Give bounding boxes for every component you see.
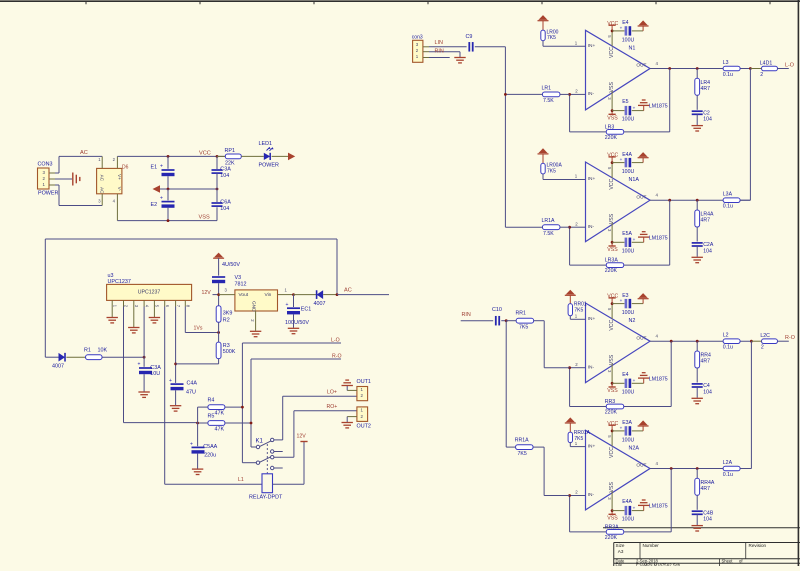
svg-text:LR4A: LR4A xyxy=(701,212,715,218)
svg-text:E3: E3 xyxy=(622,293,628,299)
svg-text:VCC: VCC xyxy=(609,47,615,58)
ground at pin3 xyxy=(128,307,139,333)
wire pin7 to R3 xyxy=(176,363,219,365)
svg-text:L3A: L3A xyxy=(723,192,733,198)
svg-text:+: + xyxy=(620,426,623,431)
N2A pin1 xyxy=(570,441,585,447)
svg-text:47U: 47U xyxy=(186,390,196,396)
diode D5 4007 xyxy=(294,290,338,307)
resistor LR3A 220K feedback xyxy=(570,200,670,274)
svg-text:VSS: VSS xyxy=(609,82,615,93)
N2 pin1 xyxy=(570,314,585,320)
N1 pin2 xyxy=(570,89,586,95)
N2A pin5 VCC xyxy=(607,421,619,446)
svg-text:E4: E4 xyxy=(622,372,628,378)
svg-text:E3A: E3A xyxy=(622,420,632,426)
capacitor 4U/50V xyxy=(212,262,240,295)
junction xyxy=(668,67,671,70)
junction xyxy=(143,356,146,359)
svg-text:R5: R5 xyxy=(208,414,215,420)
svg-text:100U/50V: 100U/50V xyxy=(285,320,309,326)
junction xyxy=(696,340,699,343)
svg-text:RR3A: RR3A xyxy=(605,524,619,530)
capacitor E5A 100U xyxy=(612,231,644,254)
svg-text:VCC: VCC xyxy=(609,178,615,189)
capacitor E3 100U xyxy=(612,293,643,316)
svg-text:R4: R4 xyxy=(208,398,215,404)
svg-text:220K: 220K xyxy=(605,268,618,274)
svg-text:LM1875: LM1875 xyxy=(649,104,668,110)
N2 pin5 VCC xyxy=(607,294,619,319)
junction xyxy=(670,467,673,470)
svg-text:7K5: 7K5 xyxy=(518,451,527,457)
N1 pin4 output xyxy=(650,61,750,69)
net label 12V xyxy=(202,290,219,296)
svg-text:R1: R1 xyxy=(84,348,91,354)
svg-text:IN+: IN+ xyxy=(588,316,596,322)
junction xyxy=(167,155,170,158)
svg-text:Number: Number xyxy=(643,543,660,548)
svg-text:LM1875: LM1875 xyxy=(649,235,668,241)
ground arrow xyxy=(638,293,649,304)
svg-text:L-O: L-O xyxy=(785,63,794,69)
svg-text:VCC: VCC xyxy=(607,153,618,159)
wire VSS rail xyxy=(117,207,217,220)
svg-text:RO+: RO+ xyxy=(327,404,338,410)
wire AC sense loop xyxy=(45,239,337,357)
svg-text:7.5K: 7.5K xyxy=(543,231,554,237)
power port arrow right xyxy=(288,153,295,161)
LED1 POWER xyxy=(259,141,289,169)
resistor R3 500K xyxy=(216,333,236,364)
resistor RR01A 7K5 xyxy=(565,417,591,446)
wire relay NO2 to OUT2 xyxy=(274,411,357,457)
svg-text:+: + xyxy=(190,441,193,447)
capacitor E3A 100U xyxy=(612,420,643,443)
junction xyxy=(505,319,508,322)
svg-text:OUT1: OUT1 xyxy=(357,379,371,385)
svg-text:+: + xyxy=(160,164,163,170)
capacitor E2 xyxy=(151,189,175,221)
svg-text:47K: 47K xyxy=(215,427,225,433)
svg-text:VCC: VCC xyxy=(607,294,618,300)
capacitor E4A 100U xyxy=(612,152,643,175)
net label L-O xyxy=(331,337,340,343)
svg-text:104: 104 xyxy=(220,173,229,179)
net label RIN 2 xyxy=(462,312,471,318)
net label VCC xyxy=(199,150,211,156)
svg-text:RR1: RR1 xyxy=(516,311,526,317)
svg-text:VSS: VSS xyxy=(607,247,618,253)
net label VSS xyxy=(199,214,210,220)
resistor LR1 7.5K xyxy=(505,85,569,104)
resistor RR1A 7K5 xyxy=(506,437,569,495)
svg-text:RR4A: RR4A xyxy=(701,480,715,486)
svg-text:VSS: VSS xyxy=(607,515,618,521)
wire CON3 pin3 to bridge AC xyxy=(55,156,102,173)
net label RO+ xyxy=(327,404,338,410)
svg-text:OUT: OUT xyxy=(636,463,646,469)
connector OUT2 xyxy=(342,407,371,430)
junction xyxy=(336,293,339,296)
svg-text:3K9: 3K9 xyxy=(223,311,233,317)
N1 pin1 xyxy=(543,41,586,47)
svg-text:VSS: VSS xyxy=(607,115,618,121)
svg-text:LR4: LR4 xyxy=(701,80,711,86)
svg-text:IN-: IN- xyxy=(588,224,595,230)
net label L-O out xyxy=(785,63,794,69)
inverted ladder ground xyxy=(638,500,649,511)
resistor RR1 7K5 xyxy=(506,311,569,368)
capacitor E5 100U xyxy=(612,99,644,122)
inductor L2A xyxy=(723,460,740,478)
sheet top border xyxy=(0,1,800,4)
svg-text:C10: C10 xyxy=(492,307,502,313)
svg-text:Vout: Vout xyxy=(239,292,249,298)
capacitor E4 100U xyxy=(612,372,644,395)
svg-text:47K: 47K xyxy=(215,411,225,417)
UPC1237 pin 3 xyxy=(134,300,139,307)
svg-text:OUT: OUT xyxy=(636,194,646,200)
junction xyxy=(568,494,571,497)
UPC1237 pin 8 xyxy=(185,300,190,307)
capacitor E4 100U xyxy=(612,20,643,43)
svg-text:AC: AC xyxy=(80,150,88,156)
svg-text:IN-: IN- xyxy=(588,364,595,370)
svg-text:C2A: C2A xyxy=(703,242,714,248)
svg-text:RR4: RR4 xyxy=(701,353,711,359)
svg-text:E5: E5 xyxy=(622,99,628,105)
svg-text:LR1: LR1 xyxy=(542,85,552,91)
svg-text:OUT: OUT xyxy=(636,63,646,69)
svg-text:LR3A: LR3A xyxy=(605,258,619,264)
svg-text:220u: 220u xyxy=(204,453,216,459)
svg-text:VSS: VSS xyxy=(609,482,615,493)
svg-text:220K: 220K xyxy=(605,135,618,141)
junction xyxy=(504,93,507,96)
svg-text:100U: 100U xyxy=(622,37,635,43)
UPC1237 pin 4 xyxy=(144,300,149,307)
svg-text:OUT: OUT xyxy=(636,335,646,341)
junction xyxy=(668,199,671,202)
wire bridge R xyxy=(750,341,752,468)
inverted ladder ground xyxy=(638,373,649,384)
svg-text:VSS: VSS xyxy=(609,213,615,224)
svg-text:C3A: C3A xyxy=(150,365,161,371)
svg-text:0.1u: 0.1u xyxy=(723,204,733,210)
capacitor C9 xyxy=(466,34,473,52)
svg-text:+: + xyxy=(620,298,623,303)
op-amp N1 xyxy=(586,30,651,110)
svg-text:12V: 12V xyxy=(202,290,212,296)
wire bridge L xyxy=(749,69,751,201)
inverted ladder ground xyxy=(638,232,649,243)
junction xyxy=(216,155,219,158)
op-amp N1A xyxy=(586,162,651,242)
svg-text:IN-: IN- xyxy=(588,492,595,498)
resistor R4 47K xyxy=(198,398,243,417)
wire relay NO1 to OUT1 xyxy=(274,396,357,440)
svg-text:N2A: N2A xyxy=(629,446,640,452)
svg-text:POWER: POWER xyxy=(38,191,58,197)
svg-text:4R7: 4R7 xyxy=(701,218,711,224)
svg-text:C4A: C4A xyxy=(187,381,198,387)
resistor LR00A 7K5 xyxy=(538,148,563,179)
label LM1875 xyxy=(649,104,668,110)
resistor LR4A 4R7 xyxy=(695,200,714,241)
capacitor C10 xyxy=(492,307,506,325)
wire R-O sense xyxy=(251,359,341,447)
wire C9 to bus xyxy=(475,47,506,227)
svg-text:L2A: L2A xyxy=(723,460,733,466)
junction xyxy=(611,430,614,433)
svg-text:E4: E4 xyxy=(622,20,628,26)
junction xyxy=(241,406,244,409)
wire pin2 net xyxy=(124,307,198,423)
capacitor C3A xyxy=(212,156,232,189)
junction xyxy=(696,199,699,202)
capacitor C4A xyxy=(169,307,197,412)
ground arrow xyxy=(638,152,649,163)
svg-text:V3: V3 xyxy=(235,275,242,281)
UPC1237 pin 5 xyxy=(154,300,159,307)
relay K1 coil xyxy=(249,474,283,501)
UPC1237 pin 2 xyxy=(124,300,129,307)
N1A pin3 VSS xyxy=(607,223,618,253)
mid-rail ground arrow xyxy=(153,185,218,193)
svg-text:100U: 100U xyxy=(622,248,635,254)
net label RIN xyxy=(435,48,444,54)
svg-text:V-: V- xyxy=(117,187,122,192)
svg-text:LIN: LIN xyxy=(435,40,443,46)
N1 pin3 VSS xyxy=(607,91,618,121)
svg-text:104: 104 xyxy=(703,117,712,123)
svg-text:VSS: VSS xyxy=(199,214,210,220)
svg-text:LED1: LED1 xyxy=(259,141,273,147)
junction xyxy=(568,226,571,229)
svg-text:N2: N2 xyxy=(629,318,636,324)
svg-text:L4D1: L4D1 xyxy=(760,60,773,66)
svg-text:+: + xyxy=(169,378,172,384)
svg-text:7K5: 7K5 xyxy=(547,35,556,41)
net label LO+ xyxy=(327,390,337,396)
ground arrow xyxy=(638,20,649,31)
svg-text:7K5: 7K5 xyxy=(574,436,583,442)
N1A pin5 VCC xyxy=(607,153,619,178)
svg-text:12V: 12V xyxy=(297,433,307,439)
N1A pin1 xyxy=(543,174,586,180)
svg-text:10U: 10U xyxy=(150,371,160,377)
svg-text:500K: 500K xyxy=(223,349,236,355)
resistor RR3A 220K feedback xyxy=(570,469,672,542)
svg-text:4R7: 4R7 xyxy=(701,359,711,365)
svg-text:E2: E2 xyxy=(151,202,158,208)
wire L3A to bridge xyxy=(740,199,750,201)
junction xyxy=(292,293,295,296)
net label LIN xyxy=(435,40,443,46)
svg-text:V+: V+ xyxy=(117,174,122,180)
svg-text:RIN: RIN xyxy=(435,48,444,54)
svg-text:C4B: C4B xyxy=(703,510,714,516)
svg-text:2: 2 xyxy=(761,345,764,351)
resistor RR4A 4R7 xyxy=(695,469,715,510)
capacitor C2A 104 xyxy=(692,242,714,263)
net label AC xyxy=(344,288,352,294)
svg-text:UPC1237: UPC1237 xyxy=(138,289,161,295)
resistor LR4 4R7 xyxy=(695,69,710,110)
svg-text:Vin: Vin xyxy=(265,292,272,298)
svg-text:IN-: IN- xyxy=(588,91,595,97)
power arrow + xyxy=(213,253,224,276)
svg-text:RELAY-DPDT: RELAY-DPDT xyxy=(249,494,283,500)
svg-text:AC: AC xyxy=(99,175,104,182)
capacitor E4A 100U xyxy=(612,499,644,522)
inductor L2C xyxy=(751,333,788,351)
resistor RP1 xyxy=(217,148,264,167)
relay K1 contacts xyxy=(242,438,282,473)
junction xyxy=(568,93,571,96)
earth ground at CON3 pin2 xyxy=(55,173,80,186)
svg-text:4R7: 4R7 xyxy=(701,486,711,492)
svg-text:LR3: LR3 xyxy=(605,124,615,130)
wire pin8 to 1Vs node xyxy=(185,307,218,333)
svg-text:C6A: C6A xyxy=(220,199,231,205)
junction xyxy=(196,422,199,425)
capacitor EC1 100U/50V xyxy=(285,295,311,334)
N1A pin2 xyxy=(570,221,586,227)
junction xyxy=(696,67,699,70)
svg-text:AC: AC xyxy=(99,187,104,194)
svg-text:220K: 220K xyxy=(605,535,618,541)
svg-text:CON3: CON3 xyxy=(38,162,53,168)
svg-text:R2: R2 xyxy=(223,318,230,324)
connector OUT1 xyxy=(342,379,371,401)
svg-text:RR1A: RR1A xyxy=(515,437,529,443)
svg-text:+: + xyxy=(633,105,636,110)
resistor R5 47K xyxy=(198,414,251,433)
svg-text:IN+: IN+ xyxy=(588,176,596,182)
svg-text:100U: 100U xyxy=(622,389,635,395)
svg-text:E4A: E4A xyxy=(622,152,632,158)
svg-text:L1: L1 xyxy=(238,477,244,483)
junction xyxy=(750,340,753,343)
svg-text:10K: 10K xyxy=(98,348,108,354)
svg-text:AC: AC xyxy=(344,288,352,294)
junction xyxy=(568,366,571,369)
junction xyxy=(611,161,614,164)
junction xyxy=(670,340,673,343)
svg-text:VCC: VCC xyxy=(609,319,615,330)
svg-text:100U: 100U xyxy=(622,310,635,316)
capacitor E1 xyxy=(151,156,175,189)
svg-text:D6: D6 xyxy=(122,165,129,171)
svg-text:22K: 22K xyxy=(225,161,235,167)
junction xyxy=(611,382,614,385)
svg-text:C9: C9 xyxy=(466,34,473,40)
junction xyxy=(611,241,614,244)
wire LIN xyxy=(429,46,467,48)
wire L-O sense xyxy=(242,343,341,463)
svg-text:Sheet: Sheet xyxy=(722,559,734,564)
svg-text:Size: Size xyxy=(616,543,625,548)
resistor R1 10K xyxy=(84,348,144,360)
IC U3 UPC1237 xyxy=(107,273,192,300)
svg-text:RP1: RP1 xyxy=(225,148,236,154)
capacitor C2 104 xyxy=(692,110,712,131)
svg-text:LM1875: LM1875 xyxy=(649,504,668,510)
inverted ladder ground xyxy=(638,100,649,111)
svg-text:+: + xyxy=(633,378,636,383)
inductor L2 xyxy=(723,333,740,351)
svg-text:GND: GND xyxy=(250,301,256,312)
label LM1875 xyxy=(649,376,668,382)
diode D7 4007 xyxy=(45,353,85,370)
wire R4-R5 tie xyxy=(197,407,199,446)
svg-text:EC1: EC1 xyxy=(301,306,312,312)
junction xyxy=(611,302,614,305)
capacitor C4 104 xyxy=(692,383,712,404)
svg-text:100U: 100U xyxy=(622,169,635,175)
svg-text:104: 104 xyxy=(703,517,712,523)
svg-text:+: + xyxy=(620,26,623,31)
svg-text:L-O: L-O xyxy=(331,337,340,343)
svg-text:100U: 100U xyxy=(622,437,635,443)
svg-text:VCC: VCC xyxy=(199,150,211,156)
N2 pin4 output xyxy=(650,334,751,342)
junction xyxy=(696,467,699,470)
op-amp N2A xyxy=(586,430,651,510)
inductor L3 xyxy=(723,60,740,78)
svg-text:C2: C2 xyxy=(703,110,710,116)
svg-text:con3: con3 xyxy=(412,35,423,41)
ground at pin5 xyxy=(149,307,160,323)
N2A pin4 output xyxy=(650,461,751,469)
wire coil right to 12V xyxy=(273,442,305,485)
svg-text:220K: 220K xyxy=(605,410,618,416)
N2A pin3 VSS xyxy=(607,491,618,521)
capacitor C5AA 220u xyxy=(190,441,218,474)
svg-text:7K5: 7K5 xyxy=(519,325,528,331)
svg-text:104: 104 xyxy=(703,389,712,395)
junction xyxy=(611,509,614,512)
wire pin6 to relay coil xyxy=(165,307,262,485)
svg-text:C4: C4 xyxy=(703,383,710,389)
svg-text:+: + xyxy=(633,237,636,242)
svg-text:+: + xyxy=(160,195,163,201)
net label 12V relay xyxy=(297,433,308,441)
svg-text:E5A: E5A xyxy=(622,231,632,237)
label LM1875 xyxy=(649,235,668,241)
ground arrow xyxy=(638,420,649,431)
svg-text:100U: 100U xyxy=(622,117,635,123)
svg-text:1Vs: 1Vs xyxy=(194,326,203,332)
svg-text:R3: R3 xyxy=(223,343,230,349)
input ground xyxy=(429,52,466,63)
op-amp N2 xyxy=(586,303,651,383)
resistor R2 3K9 xyxy=(216,295,232,333)
svg-text:POWER: POWER xyxy=(259,162,279,168)
svg-text:VSS: VSS xyxy=(607,388,618,394)
svg-text:LR1A: LR1A xyxy=(542,218,556,224)
svg-text:E4A: E4A xyxy=(622,499,632,505)
capacitor C4B 104 xyxy=(692,510,714,531)
svg-text:IN+: IN+ xyxy=(588,443,596,449)
svg-text:N1A: N1A xyxy=(629,177,640,183)
N1 pin5 VCC xyxy=(607,21,619,46)
svg-text:IN+: IN+ xyxy=(588,43,596,49)
svg-text:7812: 7812 xyxy=(235,282,247,288)
ground at pin1 xyxy=(107,307,118,323)
